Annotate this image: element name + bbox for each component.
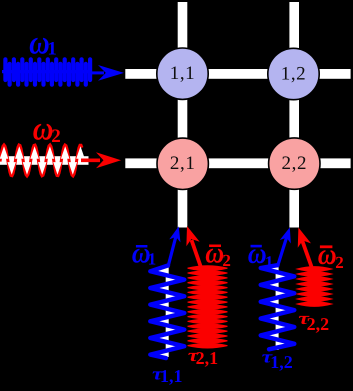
label omega_1 (29, 24, 50, 61)
svg-text:2,2: 2,2 (307, 314, 330, 334)
spring tau_2,2 (red coil) (297, 267, 331, 272)
node 1,1 (157, 48, 208, 99)
arrow omega-bar_2 shaft (pair 2) (302, 240, 312, 267)
spring tau_1,1 white wedges (153, 268, 167, 275)
label omega-bar_2 (pair 2) (320, 245, 333, 248)
spring tau_1,2 white wedges (263, 264, 277, 271)
node 1,2 (268, 48, 319, 99)
label omega-bar_1 (pair 2) (251, 245, 262, 248)
svg-text:ω: ω (205, 236, 224, 269)
spring tau_1,2 white centerline (276, 267, 279, 350)
svg-text:1: 1 (148, 250, 157, 269)
wire omega_2 arrow shaft (81, 159, 100, 163)
arrowhead omega-bar_1 (pair 1) (169, 225, 184, 242)
svg-text:1,1: 1,1 (170, 63, 196, 84)
spring tau_1,1 white centerline (166, 267, 169, 357)
label omega-bar_2 (pair 1) (209, 245, 221, 248)
wire horizontal lattice line row 1 (125, 69, 350, 79)
arrowhead omega-bar_2 (pair 2) (292, 225, 311, 247)
svg-text:1: 1 (47, 39, 57, 60)
label tau_2,2 (298, 309, 310, 328)
spring tau_1,2 (blue coil) (261, 265, 295, 349)
arrow omega-bar_1 shaft (pair 2) (277, 236, 287, 268)
svg-text:2: 2 (51, 126, 61, 147)
arrow omega-bar_2 shaft (pair 1) (192, 240, 202, 268)
svg-text:2: 2 (335, 253, 344, 272)
svg-text:ω: ω (318, 238, 337, 271)
svg-text:2: 2 (222, 251, 231, 270)
spring tau_2,1 (red coil) (188, 266, 228, 271)
svg-text:ω: ω (248, 237, 267, 270)
drive wave omega_2 white backing band (0, 156, 89, 165)
svg-text:1,1: 1,1 (160, 366, 183, 386)
label omega-bar_1 (pair 1) (136, 245, 148, 248)
spring tau_1,1 (blue coil) (150, 265, 184, 358)
svg-text:2,2: 2,2 (282, 153, 308, 174)
label tau_1,2 (262, 348, 274, 367)
node 2,2 (269, 138, 320, 189)
arrowhead omega_1 (98, 65, 124, 81)
wire vertical lattice line col 1 (178, 2, 188, 228)
wire horizontal lattice line row 2 (125, 158, 350, 168)
label tau_2,1 (188, 346, 200, 365)
arrow omega-bar_1 shaft (pair 1) (168, 235, 177, 268)
drive wave omega_2 white interior spikes (0, 146, 8, 159)
wire vertical lattice line col 2 (289, 2, 299, 228)
svg-text:2,1: 2,1 (196, 348, 219, 368)
svg-text:1,2: 1,2 (281, 63, 307, 84)
svg-text:ω: ω (33, 110, 54, 147)
arrowhead omega-bar_1 (pair 2) (280, 226, 296, 244)
label omega_2 (33, 110, 54, 147)
wire omega_1 arrow shaft (89, 71, 104, 74)
svg-text:1: 1 (265, 252, 274, 271)
drive wave omega_1 (blue, high frequency) (3, 59, 7, 80)
arrowhead omega_2 (96, 152, 121, 168)
drive wave omega_2 (red sine) (0, 145, 82, 176)
label tau_1,1 (152, 364, 164, 383)
node 2,1 (157, 138, 208, 189)
svg-text:1,2: 1,2 (270, 352, 293, 372)
arrowhead omega-bar_2 (pair 1) (180, 224, 199, 246)
svg-text:2,1: 2,1 (170, 153, 196, 174)
